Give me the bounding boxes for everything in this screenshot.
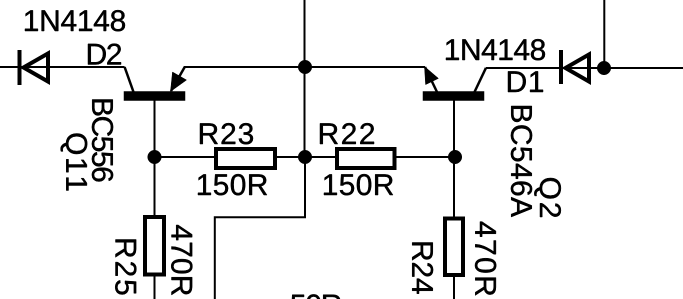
wire left rail through D2 to Q11 collector bend: [0, 66, 125, 68]
transistor Q2 base bar: [423, 92, 484, 101]
label D2: [88, 44, 121, 65]
node C junction dot: [448, 150, 462, 164]
wire top vertical line down to node B: [304, 0, 306, 157]
wire base row node A to node C: [155, 156, 456, 158]
diode D1 (1N4148): [561, 50, 589, 84]
label D1: [508, 71, 543, 92]
wire Q2 base down to node C: [453, 100, 455, 157]
label 1N4148 (D1): [446, 39, 545, 60]
node A junction dot: [148, 150, 162, 164]
wire node B down and left to bottom edge (toward 50R): [215, 157, 305, 299]
wire node C down through R24 to bottom edge: [453, 157, 455, 299]
label R22: [320, 123, 374, 144]
label Q2: [534, 178, 561, 217]
resistor R23 150R: [216, 149, 275, 168]
wire emitter rail Q11 to Q2: [184, 66, 425, 68]
label R25: [115, 240, 136, 295]
resistor R24 470R: [445, 219, 463, 276]
label Q11: [61, 134, 88, 191]
label 50R (partly visible): [291, 294, 341, 299]
transistor Q11 collector diagonal: [125, 67, 134, 92]
label 150R (R23): [198, 174, 267, 195]
wire Q11 base down to node A: [154, 100, 156, 157]
transistor Q2 collector diagonal: [475, 68, 487, 92]
wire Q2 collector to right edge through D1: [486, 67, 683, 69]
wire top vertical line right: [603, 0, 605, 68]
resistor R22 150R: [337, 149, 395, 168]
transistor Q11 emitter with arrow (PNP, points into bar): [171, 67, 187, 92]
label 1N4148 (D2): [25, 10, 125, 31]
junction dot on emitter rail: [298, 60, 312, 74]
label 150R (R22): [324, 174, 393, 195]
label 470R (R25): [171, 225, 192, 295]
junction dot at D1 cathode rail: [597, 61, 611, 75]
wire node A down through R25 to bottom edge: [154, 157, 156, 299]
label BC546A: [511, 106, 532, 217]
transistor Q2 emitter with arrow (NPN, points away from bar): [425, 67, 439, 93]
label R24: [412, 243, 433, 294]
resistor R25 470R: [145, 217, 164, 275]
label BC556: [92, 100, 113, 182]
node B junction dot: [298, 150, 312, 164]
transistor Q11 base bar: [124, 92, 185, 101]
diode D2 (1N4148): [20, 50, 49, 85]
label R23: [200, 123, 253, 144]
label 470R (R24): [475, 222, 496, 296]
